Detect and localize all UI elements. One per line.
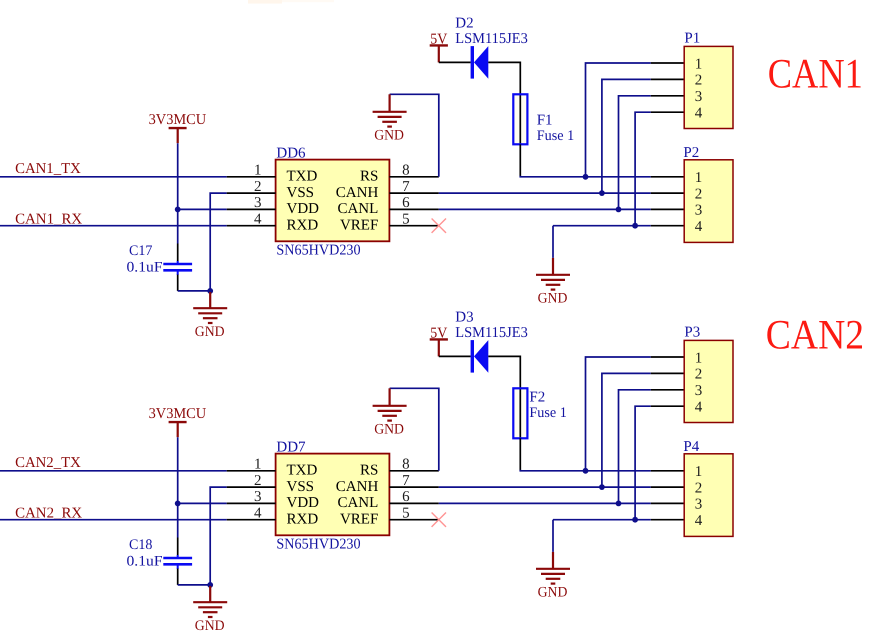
wire P3 pin 2 to bus row 2 bbox=[602, 373, 651, 487]
capacitor C18 bbox=[163, 538, 192, 585]
pin 3 stub (P4) bbox=[651, 502, 684, 504]
pin 1 stub (P3) bbox=[651, 356, 684, 358]
wire VSS pin 2 to ground drop bbox=[210, 193, 227, 291]
wire 3V3 rail to capacitor C17 bbox=[177, 209, 179, 243]
svg-text:DD6: DD6 bbox=[276, 146, 306, 162]
svg-text:4: 4 bbox=[695, 106, 703, 122]
svg-text:RXD: RXD bbox=[287, 218, 319, 234]
pin 4 stub (P3) bbox=[651, 405, 684, 407]
svg-text:F1: F1 bbox=[537, 113, 553, 129]
diode D2 LSM115JE3 bbox=[439, 46, 521, 94]
pin 1 stub (P1) bbox=[651, 62, 684, 64]
pin 1 stub (DD7) bbox=[227, 470, 276, 472]
svg-text:VREF: VREF bbox=[340, 218, 378, 234]
ground below C17 bbox=[193, 292, 227, 323]
svg-text:CAN1_TX: CAN1_TX bbox=[15, 161, 81, 177]
svg-text:CANH: CANH bbox=[336, 479, 379, 495]
wire fuse F2 to bus row bbox=[519, 438, 521, 471]
ground below P2 bbox=[536, 258, 570, 290]
wire VDD node to pin 3 bbox=[178, 502, 227, 504]
power port 3V3MCU bar (DD7 section) bbox=[169, 422, 187, 437]
wire P4 pin 4 row to ground bbox=[552, 520, 554, 552]
pin 2 stub (DD7) bbox=[227, 486, 276, 488]
pin 3 stub (P2) bbox=[651, 208, 684, 210]
svg-text:0.1uF: 0.1uF bbox=[127, 259, 163, 275]
pin 1 stub (P2) bbox=[651, 176, 684, 178]
wire CAN1_RX to RXD bbox=[0, 225, 227, 227]
svg-text:VSS: VSS bbox=[287, 185, 315, 201]
junction bus row 3 bbox=[616, 501, 622, 507]
svg-text:C17: C17 bbox=[129, 243, 152, 259]
wire CANH to P2 pin 2 bbox=[439, 192, 651, 194]
svg-text:VREF: VREF bbox=[340, 512, 378, 528]
svg-text:1: 1 bbox=[695, 464, 703, 480]
connector P4 bbox=[684, 454, 733, 537]
svg-text:RS: RS bbox=[360, 463, 378, 479]
power port 5V bar (5V D2) bbox=[430, 45, 448, 62]
wire P1 pin 3 to bus row 3 bbox=[619, 96, 651, 210]
wire CANH to P4 pin 2 bbox=[439, 486, 651, 488]
wire fuse output to P4 pin 1 bbox=[520, 470, 651, 471]
pin 5 stub (DD6) bbox=[389, 225, 438, 227]
svg-text:GND: GND bbox=[538, 585, 568, 601]
wire CAN2_RX to RXD bbox=[0, 519, 227, 521]
svg-text:RXD: RXD bbox=[287, 512, 319, 528]
svg-text:GND: GND bbox=[195, 618, 225, 634]
wire CANL to P2 pin 3 bbox=[439, 208, 651, 210]
wire P3 pin 4 to bus row 4 bbox=[635, 406, 651, 520]
svg-text:7: 7 bbox=[402, 179, 410, 195]
svg-text:DD7: DD7 bbox=[276, 440, 306, 456]
capacitor C17 bbox=[163, 244, 192, 291]
svg-text:CAN1: CAN1 bbox=[768, 51, 863, 97]
svg-text:2: 2 bbox=[254, 473, 262, 489]
pin 2 stub (P1) bbox=[651, 78, 684, 80]
svg-text:3: 3 bbox=[254, 195, 262, 211]
svg-text:RS: RS bbox=[360, 169, 378, 185]
svg-text:6: 6 bbox=[402, 195, 410, 211]
svg-text:1: 1 bbox=[695, 56, 703, 72]
wire 3V3 rail to capacitor C18 bbox=[177, 503, 179, 537]
svg-text:7: 7 bbox=[402, 473, 410, 489]
svg-text:4: 4 bbox=[695, 513, 703, 529]
svg-text:TXD: TXD bbox=[287, 463, 318, 479]
svg-text:4: 4 bbox=[254, 506, 262, 522]
wire VDD node to pin 3 bbox=[178, 208, 227, 210]
ground at RS pin of DD6 bbox=[373, 94, 407, 126]
svg-text:D2: D2 bbox=[455, 15, 473, 31]
power port 3V3MCU bar (DD6 section) bbox=[169, 128, 187, 143]
connector P3 bbox=[684, 340, 733, 422]
diode D3 LSM115JE3 bbox=[439, 340, 521, 388]
pin 2 stub (P3) bbox=[651, 372, 684, 374]
no-connect cross on VREF pin 5 (DD7) bbox=[432, 513, 446, 527]
pin 4 stub (P1) bbox=[651, 111, 684, 113]
pin 7 stub (DD7) bbox=[389, 486, 438, 488]
svg-text:3: 3 bbox=[695, 497, 703, 513]
svg-text:LSM115JE3: LSM115JE3 bbox=[455, 31, 528, 47]
svg-text:VDD: VDD bbox=[287, 495, 320, 511]
svg-text:C18: C18 bbox=[129, 537, 152, 553]
junction bus row 3 bbox=[616, 207, 622, 213]
svg-text:F2: F2 bbox=[529, 389, 545, 405]
pin 2 stub (P2) bbox=[651, 192, 684, 194]
junction bus row 4 bbox=[632, 517, 638, 523]
svg-text:0.1uF: 0.1uF bbox=[127, 553, 163, 569]
svg-text:2: 2 bbox=[695, 186, 703, 202]
svg-text:2: 2 bbox=[695, 480, 703, 496]
svg-text:3V3MCU: 3V3MCU bbox=[149, 112, 207, 128]
connector P1 bbox=[684, 46, 733, 128]
wire fuse F1 to bus row bbox=[519, 144, 521, 177]
junction VDD node bbox=[175, 207, 181, 213]
svg-text:3: 3 bbox=[695, 203, 703, 219]
pin 2 stub (P4) bbox=[651, 486, 684, 488]
pin 4 stub (P4) bbox=[651, 519, 684, 521]
svg-text:SN65HVD230: SN65HVD230 bbox=[276, 536, 360, 552]
svg-text:2: 2 bbox=[254, 179, 262, 195]
junction capacitor ground node bbox=[207, 288, 213, 294]
junction bus row 1 bbox=[583, 468, 589, 474]
wire 3V3MCU rail to VDD node bbox=[177, 437, 179, 503]
svg-text:CAN2_TX: CAN2_TX bbox=[15, 455, 81, 471]
wire RS pin 8 to ground bbox=[390, 388, 439, 471]
ground below C18 bbox=[193, 586, 227, 617]
svg-text:P4: P4 bbox=[683, 439, 699, 455]
wire fuse output to P2 pin 1 bbox=[520, 176, 651, 177]
wire P1 pin 2 to bus row 2 bbox=[602, 79, 651, 193]
junction VDD node bbox=[175, 501, 181, 507]
pin 6 stub (DD6) bbox=[389, 208, 438, 210]
wire P1 pin 1 to bus row 1 bbox=[586, 63, 651, 177]
svg-text:GND: GND bbox=[374, 128, 404, 144]
fuse F1 bbox=[513, 94, 527, 144]
junction bus row 1 bbox=[583, 174, 589, 180]
pin 2 stub (DD6) bbox=[227, 192, 276, 194]
wire capacitor C18 to ground junction bbox=[178, 584, 211, 586]
wire P3 pin 1 to bus row 1 bbox=[586, 357, 651, 471]
svg-text:3: 3 bbox=[254, 489, 262, 505]
junction bus row 2 bbox=[599, 484, 605, 490]
ground below P4 bbox=[536, 552, 570, 584]
ground at RS pin of DD7 bbox=[373, 388, 407, 420]
svg-text:2: 2 bbox=[695, 73, 703, 89]
svg-text:CANH: CANH bbox=[336, 185, 379, 201]
svg-text:P1: P1 bbox=[684, 31, 700, 47]
pin 6 stub (DD7) bbox=[389, 502, 438, 504]
wire P1 pin 4 to bus row 4 bbox=[635, 112, 651, 226]
junction bus row 2 bbox=[599, 190, 605, 196]
svg-text:Fuse 1: Fuse 1 bbox=[529, 405, 567, 421]
wire capacitor C17 to ground junction bbox=[178, 290, 211, 292]
pin 8 stub (DD7) bbox=[389, 470, 438, 472]
junction bus row 4 bbox=[632, 223, 638, 229]
svg-text:4: 4 bbox=[695, 219, 703, 235]
op-amp style IC body DD7 SN65HVD230 bbox=[276, 454, 390, 536]
svg-text:LSM115JE3: LSM115JE3 bbox=[455, 325, 528, 341]
svg-text:8: 8 bbox=[402, 163, 410, 179]
junction capacitor ground node bbox=[207, 582, 213, 588]
pin 3 stub (P1) bbox=[651, 95, 684, 97]
svg-text:1: 1 bbox=[695, 350, 703, 366]
svg-text:5: 5 bbox=[402, 212, 410, 228]
wire CAN2_TX to TXD bbox=[0, 470, 227, 472]
pin 4 stub (P2) bbox=[651, 225, 684, 227]
svg-text:3V3MCU: 3V3MCU bbox=[149, 406, 207, 422]
wire VSS pin 2 to ground drop bbox=[210, 487, 227, 585]
pin 5 stub (DD7) bbox=[389, 519, 438, 521]
wire RS pin 8 to ground bbox=[390, 94, 439, 177]
wire P2 pin 4 row to ground bbox=[552, 226, 554, 258]
svg-text:VSS: VSS bbox=[287, 479, 315, 495]
svg-text:Fuse 1: Fuse 1 bbox=[537, 128, 575, 144]
pin 3 stub (P3) bbox=[651, 389, 684, 391]
pin 8 stub (DD6) bbox=[389, 176, 438, 178]
pin 3 stub (DD7) bbox=[227, 502, 276, 504]
no-connect cross on VREF pin 5 (DD6) bbox=[432, 219, 446, 233]
wire ground row to P4 pin 4 bbox=[553, 519, 651, 521]
faint clipped shape at top edge bbox=[248, 0, 282, 4]
pin 4 stub (DD6) bbox=[227, 225, 276, 227]
svg-text:SN65HVD230: SN65HVD230 bbox=[276, 242, 360, 258]
pin 3 stub (DD6) bbox=[227, 208, 276, 210]
svg-text:D3: D3 bbox=[455, 309, 473, 325]
svg-text:GND: GND bbox=[538, 291, 568, 307]
svg-text:CAN2: CAN2 bbox=[766, 313, 864, 359]
svg-text:3: 3 bbox=[695, 89, 703, 105]
wire ground row to P2 pin 4 bbox=[553, 225, 651, 227]
svg-text:6: 6 bbox=[402, 489, 410, 505]
svg-text:GND: GND bbox=[374, 422, 404, 438]
power port 5V bar (5V D3) bbox=[430, 339, 448, 356]
wire P3 pin 3 to bus row 3 bbox=[619, 390, 651, 504]
connector P2 bbox=[684, 160, 733, 243]
svg-text:P3: P3 bbox=[684, 325, 700, 341]
svg-text:CANL: CANL bbox=[337, 495, 378, 511]
wire 3V3MCU rail to VDD node bbox=[177, 143, 179, 209]
pin 7 stub (DD6) bbox=[389, 192, 438, 194]
svg-text:8: 8 bbox=[402, 457, 410, 473]
pin 1 stub (P4) bbox=[651, 470, 684, 472]
svg-text:CANL: CANL bbox=[337, 201, 378, 217]
wire CANL to P4 pin 3 bbox=[439, 502, 651, 504]
svg-text:2: 2 bbox=[695, 367, 703, 383]
svg-text:5: 5 bbox=[402, 506, 410, 522]
op-amp style IC body DD6 SN65HVD230 bbox=[276, 160, 390, 242]
svg-text:GND: GND bbox=[195, 324, 225, 340]
pin 1 stub (DD6) bbox=[227, 176, 276, 178]
svg-text:1: 1 bbox=[254, 457, 262, 473]
svg-text:4: 4 bbox=[695, 400, 703, 416]
pin 4 stub (DD7) bbox=[227, 519, 276, 521]
svg-text:3: 3 bbox=[695, 383, 703, 399]
fuse F2 bbox=[513, 388, 527, 438]
svg-text:VDD: VDD bbox=[287, 201, 320, 217]
svg-text:4: 4 bbox=[254, 212, 262, 228]
svg-text:P2: P2 bbox=[683, 145, 699, 161]
wire CAN1_TX to TXD bbox=[0, 176, 227, 178]
svg-text:TXD: TXD bbox=[287, 169, 318, 185]
svg-text:1: 1 bbox=[254, 163, 262, 179]
svg-text:1: 1 bbox=[695, 170, 703, 186]
